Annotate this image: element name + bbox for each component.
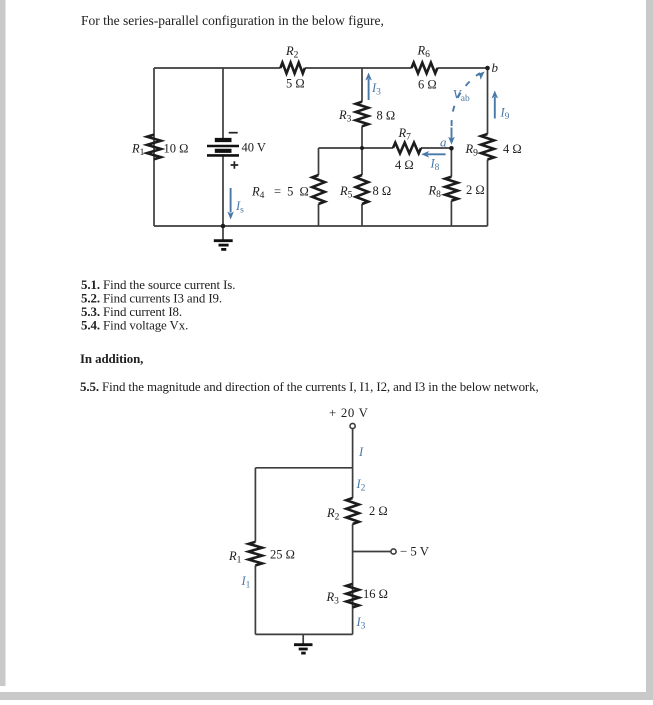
svg-text:5 Ω: 5 Ω: [286, 77, 305, 91]
svg-text:4 Ω: 4 Ω: [503, 142, 522, 156]
svg-text:6 Ω: 6 Ω: [418, 78, 437, 92]
svg-text:40 V: 40 V: [242, 141, 266, 155]
svg-text:5.4. Find voltage Vx.: 5.4. Find voltage Vx.: [81, 319, 188, 333]
svg-text:− 5 V: − 5 V: [400, 545, 430, 559]
svg-text:25 Ω: 25 Ω: [270, 548, 295, 562]
svg-text:5.3. Find current I8.: 5.3. Find current I8.: [81, 305, 182, 319]
svg-text:+ 20 V: + 20 V: [329, 406, 369, 420]
svg-text:5.2. Find currents I3 and I9.: 5.2. Find currents I3 and I9.: [81, 292, 222, 306]
svg-text:8 Ω: 8 Ω: [373, 184, 392, 198]
svg-text:For the series-parallel config: For the series-parallel configuration in…: [81, 13, 384, 28]
svg-text:2 Ω: 2 Ω: [369, 504, 388, 518]
svg-text:I: I: [358, 445, 364, 459]
svg-text:5.5. Find the magnitude and di: 5.5. Find the magnitude and direction of…: [80, 380, 539, 394]
svg-text:= 5 Ω: = 5 Ω: [274, 185, 310, 199]
svg-text:5.1. Find the source current I: 5.1. Find the source current Is.: [81, 278, 235, 292]
svg-text:b: b: [492, 60, 499, 75]
svg-text:4 Ω: 4 Ω: [395, 158, 414, 172]
svg-text:16 Ω: 16 Ω: [363, 587, 388, 601]
svg-text:8 Ω: 8 Ω: [377, 109, 396, 123]
svg-text:10 Ω: 10 Ω: [164, 142, 189, 156]
svg-text:2 Ω: 2 Ω: [466, 183, 485, 197]
svg-text:In addition,: In addition,: [80, 352, 143, 366]
svg-text:a: a: [440, 135, 447, 150]
